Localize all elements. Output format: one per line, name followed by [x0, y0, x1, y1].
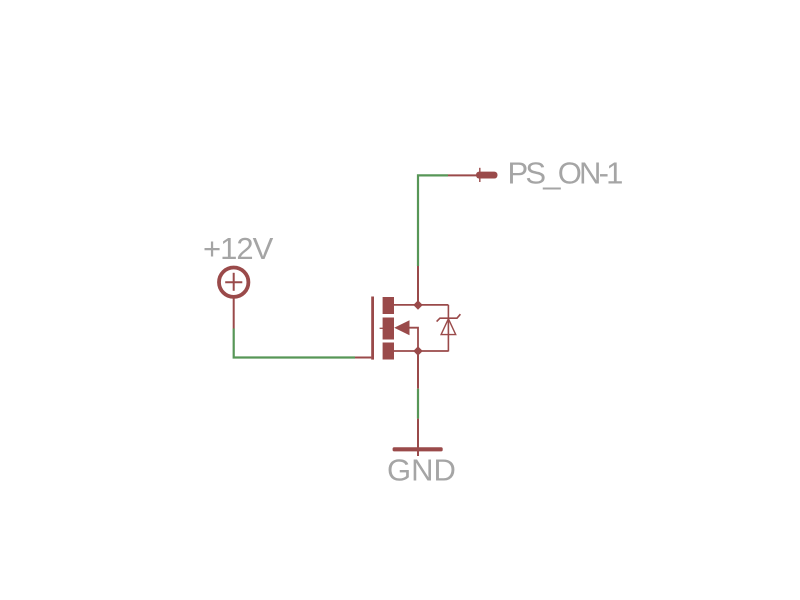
- transistor Q1 N-channel MOSFET gate pin: [355, 357, 371, 359]
- transistor Q1 channel pad top (drain): [383, 297, 394, 314]
- body diode D1 cathode zener bar: [437, 314, 461, 321]
- ground symbol bar: [393, 447, 443, 451]
- transistor Q1 source pin: [417, 351, 419, 389]
- wire source to GND (net GND): [417, 389, 419, 419]
- ground symbol pin: [417, 419, 419, 456]
- transistor Q1 substrate arrow: [394, 320, 409, 335]
- body diode D1 anode triangle: [441, 319, 456, 335]
- body diode D1 vertical line: [447, 305, 449, 352]
- transistor Q1 source connection line: [394, 350, 448, 352]
- connector PS_ON-1 pin bullet: [476, 172, 498, 179]
- transistor Q1 drain connection line: [394, 304, 448, 306]
- svg-text:PS_ON-1: PS_ON-1: [508, 155, 623, 190]
- transistor Q1 substrate connection to source: [410, 328, 419, 351]
- svg-text:GND: GND: [387, 453, 456, 488]
- transistor Q1 gate bar: [371, 297, 374, 360]
- svg-text:+12V: +12V: [203, 231, 274, 266]
- transistor Q1 channel pad middle (bulk): [383, 318, 394, 340]
- transistor Q1 bulk tick: [380, 327, 383, 329]
- transistor Q1 channel pad bottom (source): [383, 343, 394, 360]
- pin line of connector PS_ON-1: [448, 174, 477, 176]
- connector PS_ON-1 pin cross tick: [479, 168, 481, 182]
- transistor Q1 drain pin: [417, 266, 419, 305]
- supply symbol +12V: [219, 268, 248, 297]
- junction at drain: [413, 300, 422, 309]
- pin of +12V supply: [233, 297, 235, 329]
- wire drain to PS_ON pin (net PS_ON): [418, 175, 448, 266]
- wire +12V to gate (net N$1): [234, 329, 355, 358]
- junction at source: [413, 346, 422, 355]
